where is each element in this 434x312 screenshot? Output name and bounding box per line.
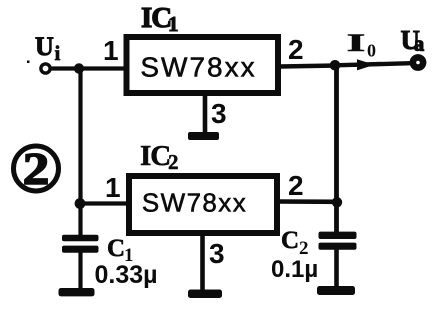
svg-text:1: 1 (168, 12, 179, 36)
svg-text:a: a (414, 34, 424, 56)
pin 3 label IC1 (211, 98, 227, 129)
svg-text:I: I (347, 29, 366, 57)
svg-text:SW78xx: SW78xx (142, 188, 247, 218)
label Ui (35, 32, 61, 65)
svg-text:2: 2 (168, 150, 179, 174)
wire left vertical rail (78, 69, 82, 237)
wire C1 to ground (78, 252, 82, 289)
svg-text:IC: IC (141, 2, 171, 34)
ground IC2 (188, 290, 222, 299)
svg-text:1: 1 (105, 172, 121, 203)
pin 3 wire IC1 (203, 93, 208, 134)
node junction at input (74, 63, 84, 73)
value 0.33u (95, 261, 158, 289)
ground C2 (317, 286, 355, 295)
svg-text:U: U (35, 32, 54, 61)
pin 2 label IC2 (288, 170, 304, 201)
output terminal Ua (413, 57, 423, 67)
ground C1 (59, 288, 95, 296)
pin 2 label IC1 (288, 34, 304, 65)
svg-text:0.1µ: 0.1µ (271, 256, 318, 283)
wire right vertical rail (334, 65, 339, 232)
svg-text:3: 3 (211, 98, 227, 129)
pin 3 label IC2 (209, 238, 225, 269)
label IC2 (140, 140, 179, 174)
node junction left at IC2 pin 1 (75, 198, 86, 209)
pin 1 label IC1 (103, 35, 119, 66)
input terminal Ui (41, 64, 50, 73)
svg-text:2: 2 (288, 170, 304, 201)
svg-text:3: 3 (209, 238, 225, 269)
ground IC1 (188, 132, 219, 140)
node output junction (330, 60, 341, 71)
label Io (347, 29, 377, 60)
label C1 (107, 235, 134, 266)
IC1 regulator box SW78xx (127, 37, 279, 93)
svg-text:C: C (107, 235, 125, 262)
svg-text:0: 0 (367, 41, 376, 61)
wire IC1 pin 2 to output node (280, 66, 337, 67)
svg-text:SW78xx: SW78xx (140, 52, 256, 83)
wire C2 to ground (334, 249, 339, 287)
wire IC2 pin 2 to right rail (279, 199, 339, 204)
op-amp: IC block U1 label IC1 (141, 2, 179, 36)
svg-text:i: i (55, 41, 61, 65)
label C2 (281, 227, 309, 259)
svg-text:2: 2 (288, 34, 304, 65)
svg-text:IC: IC (140, 140, 170, 172)
wire output with current arrow Io (335, 59, 411, 70)
speck (27, 61, 30, 64)
figure number 2 (14, 144, 59, 194)
svg-text:1: 1 (103, 35, 119, 66)
capacitor C1 (62, 235, 99, 253)
IC2 regulator box SW78xx (129, 176, 277, 233)
svg-text:C: C (281, 227, 299, 254)
wire input to IC1 pin 1 (49, 66, 125, 70)
value 0.1u (271, 256, 318, 283)
wire to IC2 pin 1 (80, 201, 129, 205)
svg-text:2: 2 (23, 144, 50, 194)
label Ua (401, 25, 425, 56)
pin 3 wire IC2 (200, 233, 205, 291)
node junction right rail (332, 197, 342, 207)
svg-text:0.33µ: 0.33µ (95, 261, 158, 289)
capacitor C2 (319, 232, 357, 250)
pin 1 label IC2 (105, 172, 121, 203)
